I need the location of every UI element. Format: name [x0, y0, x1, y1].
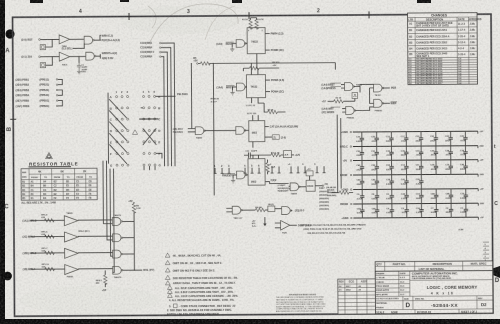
capacitor C12 — [386, 131, 394, 147]
pin stub 6 — [258, 168, 261, 174]
wire bus to driver gates — [103, 161, 112, 224]
gate U7 — [232, 206, 242, 214]
pin stub 1 — [214, 168, 217, 174]
parts list strip — [375, 261, 493, 271]
wire U10-U11 link — [360, 84, 374, 103]
pin stub 12 — [316, 166, 319, 173]
wire gate1 out to bus — [122, 220, 134, 222]
wire vertical feeds to J-A1 — [331, 115, 341, 193]
U4 output — [265, 181, 269, 183]
wire ch2 — [70, 55, 86, 57]
capacitor C28 — [445, 145, 453, 160]
pin stub 10 — [297, 166, 300, 173]
pin stub 4 — [244, 168, 247, 174]
capacitor C21 — [430, 131, 438, 147]
pin stub 11 — [304, 166, 307, 173]
data rows — [21, 182, 97, 185]
output PCMR — [265, 49, 269, 51]
capacitor C40 — [371, 203, 379, 218]
capacitor C34 — [460, 145, 468, 160]
wire gate U1a to box — [232, 43, 247, 47]
wire U12 out WER — [383, 102, 390, 104]
capacitor C31 — [371, 146, 379, 161]
resistor R5 — [197, 63, 199, 65]
header group row — [28, 169, 30, 200]
left bus — [107, 93, 109, 164]
capacitor C10 — [416, 188, 424, 204]
capacitor C1 — [78, 57, 80, 63]
pin stub 9 — [290, 166, 293, 173]
top edge black dashes — [30, 0, 43, 3]
capacitor C2 — [445, 203, 453, 218]
trim box R12 — [283, 151, 291, 158]
gate U32 — [112, 218, 122, 226]
wire U3b to box — [245, 129, 249, 131]
capacitor C19 — [445, 159, 453, 175]
row G wires down to connector — [144, 166, 155, 170]
rail +GND 1 — [353, 130, 478, 133]
output POW6 — [265, 79, 269, 81]
capacitor C38 — [386, 174, 394, 190]
capacitor C44 — [431, 188, 439, 204]
capacitor C8 — [371, 189, 379, 205]
capacitor C17 — [401, 131, 409, 147]
sheet margin ticks right — [485, 244, 487, 262]
right group contacts — [143, 95, 157, 166]
wire — [70, 38, 84, 40]
capacitor C33 — [386, 146, 394, 161]
ground for C1 — [77, 69, 81, 73]
punch hole dot top-left — [5, 29, 14, 38]
wire drop to U2 — [243, 63, 258, 75]
rail +GND 3 — [353, 216, 478, 219]
gate U34 — [112, 234, 122, 242]
wire gate U2a to box — [233, 87, 247, 91]
rail +GND 2 — [353, 188, 478, 191]
wire row A to PRL label — [156, 95, 176, 97]
capacitor C48 — [445, 188, 453, 204]
wire to gate 3 — [78, 252, 112, 254]
capacitor C13 — [401, 160, 409, 176]
output label 2QB5 — [291, 210, 292, 212]
buffer U23 — [59, 52, 70, 61]
pin stub 2 — [221, 168, 224, 174]
gate U38 — [113, 266, 123, 274]
ground U2a — [230, 91, 234, 95]
capacitor C25 — [460, 131, 468, 147]
notes block — [165, 253, 238, 316]
U3 bottom pin — [252, 142, 254, 148]
input stubs U3a — [188, 129, 196, 132]
gate U6 inputs — [278, 185, 290, 192]
wire +5V rail — [198, 63, 336, 196]
capacitor C24 — [401, 189, 409, 205]
wire row F stub — [156, 153, 162, 158]
pin stub 8 — [278, 166, 281, 173]
box U4 — [248, 159, 265, 186]
wire to gate 4 — [78, 268, 112, 270]
capacitor C14 — [460, 188, 468, 204]
note tri 8 — [167, 293, 172, 297]
resistor box R14 — [306, 171, 313, 176]
box U1 — [247, 28, 265, 54]
proprietary notice paragraph — [276, 293, 326, 313]
buffer U21 — [59, 35, 70, 44]
rail BRDC — [353, 145, 478, 148]
ground U4a — [231, 178, 235, 182]
zone tick left — [10, 118, 16, 120]
wire outputs ch1 — [94, 35, 101, 40]
output net stack — [326, 186, 336, 197]
resistor table — [21, 152, 97, 204]
driver box T1 — [306, 180, 315, 191]
op-amp U9 — [281, 220, 290, 230]
capacitor C16 — [356, 131, 364, 147]
wire U11 out PER — [383, 87, 390, 89]
resistor R16 — [339, 191, 349, 194]
gate U4a — [237, 171, 247, 179]
resistor R11 — [271, 153, 281, 156]
pulse box M1 — [40, 45, 45, 50]
wire row C — [139, 118, 158, 120]
note tri 5 — [165, 281, 170, 285]
capacitor C20 — [371, 131, 379, 147]
gate U12 — [374, 99, 384, 107]
rail right end hooks — [477, 131, 480, 219]
capacitor C29 — [356, 146, 364, 161]
resistor RP4-2 pulldown — [104, 270, 106, 274]
capacitor C39 — [430, 145, 438, 160]
wire row B stub — [141, 107, 143, 109]
pencil arc smudges top — [150, 4, 238, 42]
rail BROR — [353, 173, 478, 176]
wire U4a — [233, 175, 248, 179]
resistor R13 — [266, 160, 268, 163]
revision table top-right — [408, 13, 483, 86]
gate U6 — [290, 183, 300, 191]
wire U10 out — [354, 85, 360, 92]
capacitor C45 — [356, 160, 364, 176]
title block main — [375, 270, 493, 314]
capacitor C43 — [371, 174, 379, 190]
wire U3a out to gate U3b — [205, 129, 236, 131]
gate U13 — [346, 107, 356, 115]
gate U3b — [236, 127, 246, 135]
rail +5V — [353, 159, 478, 162]
rail BROM — [353, 202, 478, 205]
capacitor C37 — [415, 146, 423, 161]
warning triangle note 4 — [46, 153, 53, 159]
gate U8 — [282, 207, 292, 215]
capacitor C4 — [386, 203, 394, 218]
down arrow net — [264, 217, 266, 226]
capacitor C5 — [401, 203, 409, 218]
output POW4 — [266, 91, 270, 93]
buffer U35 — [65, 248, 79, 258]
wire gate2 out to bus — [123, 237, 135, 239]
delay box DL1 — [268, 206, 275, 212]
gate U36 — [113, 250, 123, 258]
pin stub 5 — [251, 168, 254, 174]
U2 bottom pins — [252, 98, 265, 104]
op-amp output DCST — [290, 224, 297, 226]
wire to gate 1 — [78, 219, 112, 221]
gate U11 — [373, 84, 383, 92]
output PMR4 — [265, 33, 269, 35]
capacitor C42 — [356, 174, 364, 190]
wire gate3 out to bus — [123, 253, 135, 255]
left group contacts — [116, 96, 130, 167]
capacitor C35 — [401, 146, 409, 161]
wire U1 bottom pin — [256, 54, 258, 68]
capacitor C9 — [357, 189, 365, 205]
op-amp inputs — [275, 223, 281, 228]
resistor R9 — [268, 110, 278, 113]
wire outputs ch2 — [96, 54, 101, 59]
pin stub 3 — [228, 168, 231, 174]
wire to gate 2 — [78, 235, 112, 237]
capacitor C52 — [386, 160, 394, 176]
note tri 2 — [165, 260, 170, 264]
wire U13 out — [355, 107, 374, 111]
output CAT — [265, 126, 269, 128]
wire — [40, 39, 59, 47]
capacitor C15 — [415, 131, 423, 147]
capacitor C6 — [386, 189, 394, 205]
gate U2a — [236, 83, 246, 91]
vertical bus from C110 stack — [163, 59, 166, 167]
gate U10 — [344, 83, 354, 91]
buffer U33 — [64, 232, 78, 242]
gate U3a — [195, 127, 205, 135]
capacitor C11 — [416, 160, 424, 176]
capacitor C54 — [357, 203, 365, 218]
capacitor C46 — [460, 159, 468, 175]
wiper diagonals left group — [109, 99, 127, 164]
rev/eco/assy table — [338, 279, 376, 314]
buffer U37 — [65, 264, 79, 274]
capacitor C7 — [431, 203, 439, 218]
left black scan bar — [0, 0, 5, 324]
capacitor C3 — [460, 203, 468, 218]
gate U22 — [84, 36, 94, 44]
pin stub 13 — [323, 166, 326, 173]
capacitor C50 — [371, 160, 379, 176]
note tri 1 — [165, 253, 170, 257]
capacitor C36 — [416, 174, 424, 190]
zone tick top 3 — [368, 11, 370, 18]
wire to T1 — [299, 186, 306, 188]
zone tick top 2 — [248, 12, 250, 19]
T1 output node — [315, 185, 322, 187]
resistor R6 — [132, 203, 135, 213]
resistor R15 — [255, 208, 265, 211]
output ZL box — [265, 136, 272, 138]
+5V pullup lower — [252, 221, 257, 228]
capacitor C41 — [401, 174, 409, 190]
number band — [375, 299, 492, 302]
top pins U3 — [253, 115, 259, 121]
punch hole dot bottom-left — [3, 272, 12, 281]
pin stub 7 — [271, 167, 274, 174]
U4 top pins — [253, 155, 259, 159]
note tri 4 — [165, 275, 170, 279]
warning triangle matrix — [132, 130, 137, 135]
pin labels small — [269, 164, 316, 166]
bottom black scan bar — [0, 319, 500, 324]
resistor R8 — [249, 66, 259, 69]
buffer U31 — [64, 216, 78, 226]
gate U24 — [86, 52, 96, 60]
capacitor C18 — [430, 159, 438, 175]
zone tick top 1 — [128, 13, 130, 20]
box B1 — [352, 92, 358, 98]
wire bus right — [133, 202, 135, 270]
wire sel — [73, 43, 85, 48]
note tri 7 — [167, 289, 172, 293]
pulse box M2 — [40, 63, 45, 68]
capacitor C30 — [416, 203, 424, 218]
note tri 6 — [167, 285, 172, 289]
left column cells — [375, 274, 409, 276]
ground U1a — [230, 47, 234, 51]
note tri 3 — [165, 268, 170, 272]
right edge black wedge — [491, 266, 500, 278]
wire U7 out — [242, 209, 256, 211]
X crossover D-E — [143, 128, 157, 145]
wire gate4 output — [123, 269, 142, 271]
capacitor C23 — [445, 131, 453, 147]
gate U1a — [236, 40, 246, 48]
